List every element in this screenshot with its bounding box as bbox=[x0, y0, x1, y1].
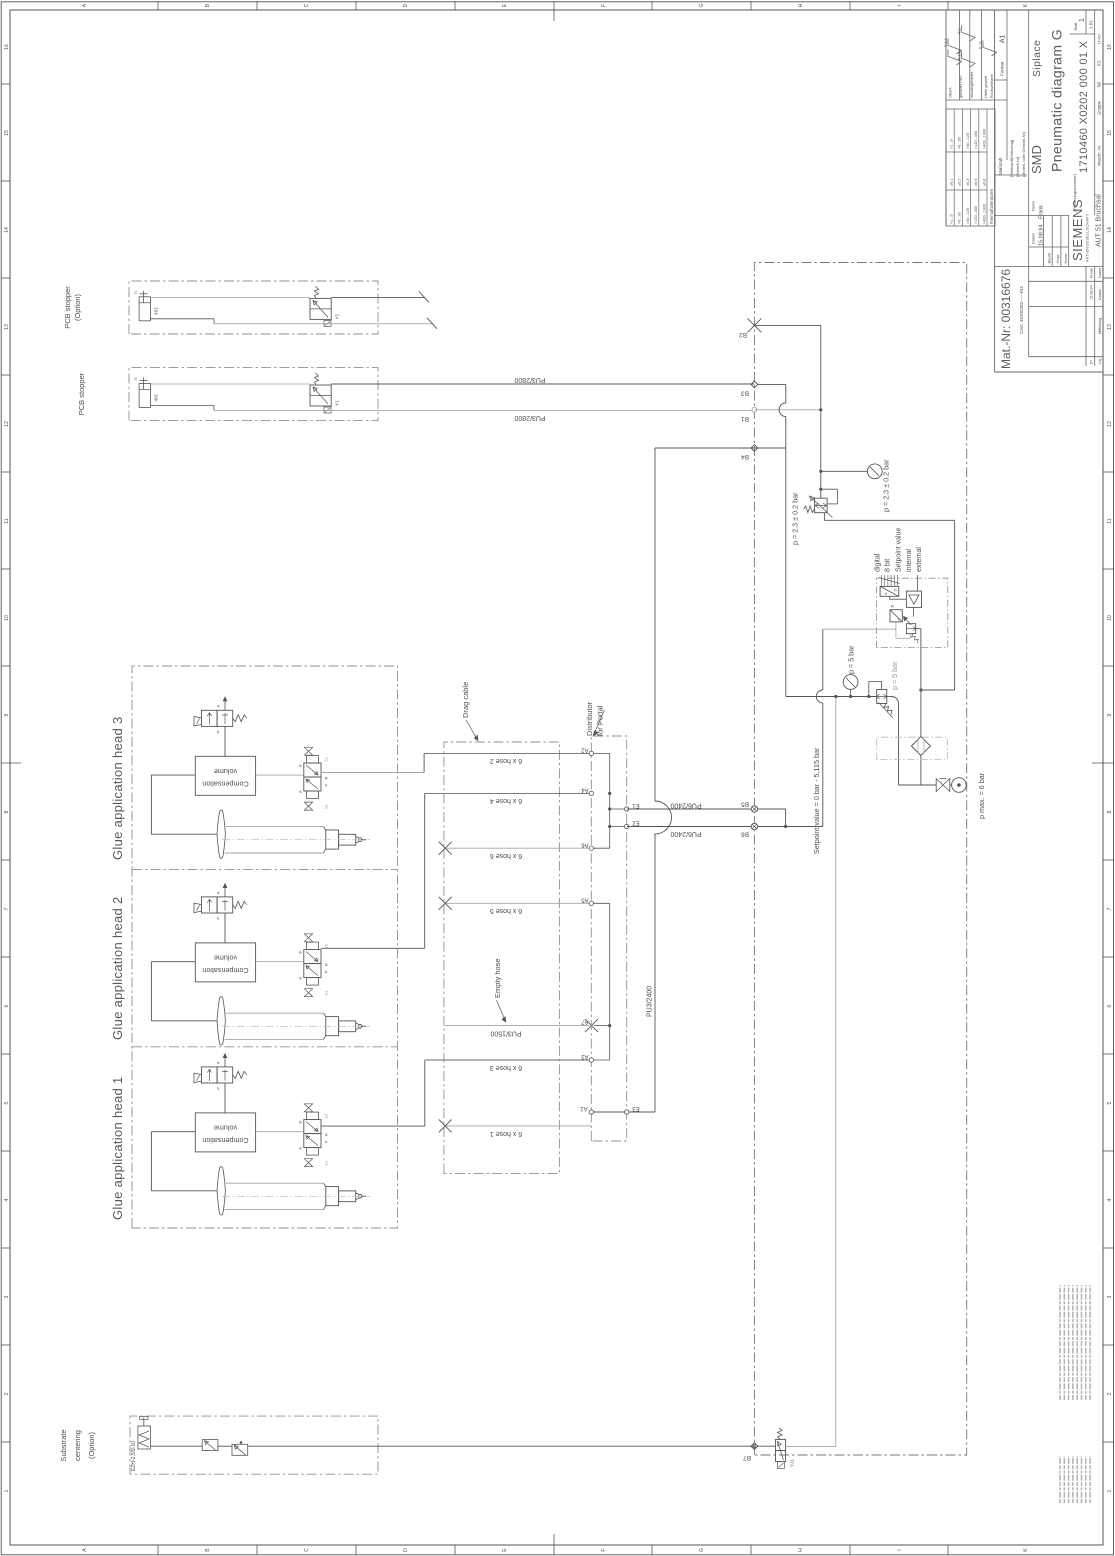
svg-text:B2: B2 bbox=[739, 331, 747, 338]
svg-text:G: G bbox=[699, 3, 705, 7]
glue head 3: syringe centerline bbox=[222, 839, 370, 841]
glue head 1: syringe barrel bbox=[225, 1209, 324, 1211]
glue head 1: 5/2 valve right pilot and muffler bbox=[307, 1112, 319, 1120]
PCB stopper 2: wire cylinder to valve bbox=[150, 383, 310, 385]
svg-text:P: P bbox=[216, 1087, 221, 1090]
filter line bbox=[920, 755, 922, 785]
svg-text:PU6/2400: PU6/2400 bbox=[670, 802, 701, 809]
distributor E2 stub bbox=[610, 826, 627, 828]
svg-text:D: D bbox=[403, 3, 409, 7]
svg-text:Empty hose: Empty hose bbox=[493, 958, 502, 998]
glue head 1: 5/2 valve left pilot and muffler bbox=[307, 1148, 319, 1156]
glue head 3: 3/2 valve body bbox=[202, 710, 218, 726]
svg-text:Setpoint value = 0 bar - 5,115: Setpoint value = 0 bar - 5,115 bar bbox=[812, 747, 821, 854]
svg-text:S1: S1 bbox=[324, 803, 329, 809]
svg-text:(Option): (Option) bbox=[73, 293, 82, 321]
svg-text:gehärtet HRc: gehärtet HRc bbox=[959, 76, 963, 98]
svg-text:S2: S2 bbox=[324, 756, 329, 762]
glue head 2: syringe plunger flange bbox=[217, 997, 225, 1045]
svg-text:S2: S2 bbox=[324, 943, 329, 949]
glue head 2: syringe tip and needle bbox=[356, 1023, 361, 1030]
title block outline bbox=[995, 371, 1103, 373]
svg-text:A: A bbox=[883, 592, 888, 595]
svg-text:Bl: Bl bbox=[134, 377, 138, 380]
PCB stopper 1: wire cylinder to valve bbox=[150, 296, 310, 298]
glue head 2: 3/2 valve body bbox=[202, 897, 218, 913]
title block vertical dividers bbox=[995, 265, 1103, 267]
svg-text:±0,5: ±0,5 bbox=[974, 179, 978, 186]
svg-text:R: R bbox=[324, 1133, 329, 1136]
svg-text:Drag cable: Drag cable bbox=[461, 682, 470, 718]
glue head 2: 5/2 valve left pilot and muffler bbox=[307, 978, 319, 986]
svg-text:PU3/2400: PU3/2400 bbox=[647, 986, 654, 1017]
svg-text:A1: A1 bbox=[580, 1105, 588, 1111]
hose PU6/2400 E2 to B6 bbox=[627, 826, 755, 828]
glue head 1: 3/2 valve spring bbox=[233, 1071, 247, 1078]
svg-text:>6...30: >6...30 bbox=[958, 212, 962, 224]
svg-text:13: 13 bbox=[4, 324, 10, 330]
PCB stopper 1: wire valve out with break bbox=[331, 296, 425, 298]
pneumatic supply unit box bbox=[754, 263, 966, 1456]
hose 3 line bbox=[425, 1059, 592, 1061]
svg-text:Name: Name bbox=[1098, 268, 1102, 278]
node A4 bbox=[589, 791, 593, 795]
distributor internal bus A5-A7-A3 bbox=[609, 903, 611, 1060]
glue head 3: 3/2 valve solenoid bbox=[194, 717, 202, 727]
svg-text:6 x hose 4: 6 x hose 4 bbox=[490, 797, 522, 804]
node A5 bbox=[589, 901, 593, 905]
wire B1 gray down bbox=[754, 409, 820, 411]
glue head 1: wire compensation volume to 5/2 valve bbox=[256, 1131, 304, 1133]
glue head 2: 3/2 valve solenoid bbox=[194, 903, 202, 913]
glue head 1: syringe luer bbox=[339, 1191, 356, 1202]
svg-text:[Modell- oder Gesenk-Nr]: [Modell- oder Gesenk-Nr] bbox=[1021, 132, 1026, 177]
svg-text:Distributor: Distributor bbox=[585, 701, 594, 736]
svg-text:>30...120: >30...120 bbox=[966, 208, 970, 224]
svg-text:10: 10 bbox=[4, 615, 10, 621]
distributor A1-E3 through line bbox=[591, 1111, 655, 1113]
svg-text:Teil: Teil bbox=[1097, 82, 1102, 88]
svg-text:K: K bbox=[1023, 3, 1029, 7]
svg-text:D: D bbox=[403, 1548, 409, 1552]
svg-text:12: 12 bbox=[4, 421, 10, 427]
wire B5 loop to B6 line bbox=[758, 808, 786, 810]
svg-text:8: 8 bbox=[4, 810, 10, 813]
svg-text:volume: volume bbox=[214, 1124, 237, 1133]
svg-text:E: E bbox=[502, 1548, 508, 1552]
svg-text:H: H bbox=[798, 1548, 804, 1552]
substrate centering: flow valve 1 bbox=[202, 1440, 218, 1451]
svg-text:F: F bbox=[601, 1548, 607, 1551]
svg-text:AUT 51 Bruchsal: AUT 51 Bruchsal bbox=[1096, 194, 1103, 247]
svg-text:R: R bbox=[324, 963, 329, 966]
glue head 3: wire valve to compensation volume bbox=[224, 726, 226, 756]
svg-text:SIEMENS: SIEMENS bbox=[1070, 199, 1085, 261]
glue application heads enclosure box bbox=[132, 666, 398, 1228]
svg-text:p = 5 bar: p = 5 bar bbox=[847, 645, 856, 674]
svg-text:1: 1 bbox=[1107, 1489, 1113, 1492]
proportional valve cluster box bbox=[877, 578, 948, 647]
svg-text:YJ1: YJ1 bbox=[790, 1459, 795, 1467]
PCB stopper 1: wire cylinder stepped bbox=[150, 318, 214, 320]
glue head 3: compensation volume box bbox=[195, 756, 255, 795]
setpoint sense line hop over main line bbox=[816, 690, 823, 703]
svg-text:Datum: Datum bbox=[1032, 233, 1036, 244]
svg-text:>1...6: >1...6 bbox=[950, 139, 954, 149]
svg-text:6: 6 bbox=[1107, 1004, 1113, 1007]
node A1 bbox=[589, 1110, 593, 1114]
svg-text:14: 14 bbox=[4, 227, 10, 233]
svg-text:CAD: 46202202------011: CAD: 46202202------011 bbox=[1019, 285, 1024, 334]
svg-text:11: 11 bbox=[1107, 518, 1113, 523]
svg-text:>400...1000: >400...1000 bbox=[982, 129, 986, 149]
svg-text:(Option): (Option) bbox=[87, 1431, 96, 1459]
svg-text:P: P bbox=[216, 917, 221, 920]
PCB stopper 1: wire cylinder out with break bbox=[214, 323, 432, 325]
svg-text:12: 12 bbox=[1107, 421, 1113, 427]
svg-text:A: A bbox=[82, 1548, 88, 1552]
svg-text:Maßstab: Maßstab bbox=[998, 157, 1003, 175]
wire A/D to amplifier bbox=[889, 596, 891, 599]
svg-text:Datum: Datum bbox=[1098, 289, 1102, 300]
svg-text:A: A bbox=[298, 1147, 303, 1150]
legal notice german bbox=[1059, 1456, 1061, 1503]
svg-text:E: E bbox=[502, 3, 508, 7]
PCB stopper 2: cylinder 401 bbox=[139, 383, 150, 407]
svg-text:6 x hose 1: 6 x hose 1 bbox=[490, 1130, 522, 1137]
filter bbox=[911, 737, 930, 756]
svg-text:15.08.94: 15.08.94 bbox=[1090, 285, 1094, 300]
svg-text:R,100: R,100 bbox=[958, 50, 962, 60]
svg-text:Compensation: Compensation bbox=[202, 966, 248, 975]
glue head 1: syringe collar bbox=[326, 1187, 339, 1206]
svg-text:p max. = 6 bar: p max. = 6 bar bbox=[977, 772, 986, 819]
shut-off valve bbox=[899, 784, 937, 786]
drag cable leader line bbox=[466, 720, 477, 738]
svg-text:7: 7 bbox=[4, 907, 10, 910]
proportional valve spring bbox=[912, 634, 919, 643]
regulator p2.3 output loop bbox=[823, 513, 825, 521]
svg-text:p = 2.3 ± 0.2 bar: p = 2.3 ± 0.2 bar bbox=[882, 459, 891, 512]
svg-text:P: P bbox=[324, 970, 329, 973]
svg-text:Glue application head 3: Glue application head 3 bbox=[110, 716, 125, 860]
PCB stopper 2: hose PU3/2800 valve to B3 bbox=[331, 383, 754, 385]
svg-text:S1: S1 bbox=[324, 1160, 329, 1166]
PCB stopper 2: valve Y1 solenoid bbox=[324, 407, 331, 413]
svg-text:[Rohteil-Nr]: [Rohteil-Nr] bbox=[1015, 157, 1020, 177]
hose 5 line capped bbox=[445, 902, 591, 904]
svg-text:R: R bbox=[324, 777, 329, 780]
svg-text:B4: B4 bbox=[741, 453, 749, 460]
PCB stopper 1: valve Y1 solenoid bbox=[324, 320, 331, 326]
svg-text:6 x hose 3: 6 x hose 3 bbox=[490, 1064, 522, 1071]
glue head 2: syringe collar bbox=[326, 1017, 339, 1036]
P/x converter box bbox=[890, 610, 902, 622]
svg-text:E2: E2 bbox=[632, 820, 640, 826]
proportional valve solenoid arrow bbox=[904, 617, 912, 626]
svg-text:Glue application head 2: Glue application head 2 bbox=[110, 896, 125, 1040]
glue head 2: syringe centerline bbox=[222, 1025, 370, 1027]
glue head 1: syringe tip and needle bbox=[356, 1193, 361, 1200]
svg-text:U-Art: U-Art bbox=[1097, 33, 1102, 44]
substrate centering: cylinder EZH-2,5/9-10 bbox=[138, 1426, 151, 1449]
svg-text:PU3/2800: PU3/2800 bbox=[514, 376, 545, 383]
svg-text:2: 2 bbox=[4, 1392, 10, 1395]
svg-text:Pneumatic diagram G: Pneumatic diagram G bbox=[1049, 29, 1065, 172]
svg-text:4: 4 bbox=[4, 1198, 10, 1201]
svg-text:Df: Df bbox=[1090, 360, 1094, 364]
svg-text:A1: A1 bbox=[1000, 34, 1007, 43]
supply line y786 with hop over B1 wire bbox=[785, 417, 787, 697]
node B6 bbox=[751, 823, 757, 829]
svg-text:Compensation: Compensation bbox=[202, 780, 248, 789]
pressure regulator p=2.3bar spring bbox=[803, 506, 814, 513]
PCB stopper box 2 bbox=[129, 368, 378, 421]
PCB stopper 2: valve Y1 spring bbox=[315, 373, 319, 385]
glue head 1: syringe centerline bbox=[222, 1195, 370, 1197]
svg-text:6 x hose 5: 6 x hose 5 bbox=[490, 907, 522, 914]
A/D converter box bbox=[880, 586, 899, 596]
glue head 2: wire compensation volume over to syringe bbox=[151, 961, 195, 963]
gray sense wires prop valve bbox=[823, 628, 896, 630]
svg-text:4: 4 bbox=[1107, 1198, 1113, 1201]
wire head3 valve to hose 2 bbox=[321, 772, 424, 774]
glue head 3: syringe luer bbox=[339, 834, 356, 845]
svg-text:Gepr.: Gepr. bbox=[1055, 254, 1060, 264]
PCB stopper 2: hose PU3/2800 cylinder to B1 bbox=[214, 409, 754, 411]
svg-text:Mascht.-Nr.: Mascht.-Nr. bbox=[1097, 145, 1102, 166]
svg-text:±0,1: ±0,1 bbox=[950, 179, 954, 186]
svg-text:>120...400: >120...400 bbox=[974, 206, 978, 224]
filter unit box gray bbox=[877, 737, 948, 759]
svg-text:B: B bbox=[298, 764, 303, 767]
legal notice english bbox=[1059, 1285, 1061, 1400]
svg-text:8 bit: 8 bit bbox=[885, 559, 892, 572]
svg-text:>400...1000: >400...1000 bbox=[982, 204, 986, 224]
svg-text:B7: B7 bbox=[743, 1454, 751, 1461]
PCB stopper 1: valve Y1 spring bbox=[315, 286, 319, 298]
svg-text:Gruppe: Gruppe bbox=[1097, 100, 1102, 115]
svg-text:volume: volume bbox=[214, 767, 237, 776]
main supply drop line x859.5 bbox=[786, 696, 877, 698]
svg-text:p = 5 bar: p = 5 bar bbox=[890, 661, 899, 690]
svg-text:Freimaßtoleranzen: Freimaßtoleranzen bbox=[989, 188, 994, 224]
frame row ticks left/right bbox=[157, 1545, 159, 1555]
svg-text:einsatzgehärtet: einsatzgehärtet bbox=[970, 71, 974, 98]
distributor box bbox=[591, 736, 626, 1141]
svg-text:ES: ES bbox=[1097, 60, 1102, 66]
wire YJ1 output to supply long gray line bbox=[835, 697, 837, 1447]
svg-text:8: 8 bbox=[1107, 810, 1113, 813]
svg-text:C: C bbox=[304, 3, 310, 7]
svg-text:G: G bbox=[699, 1548, 705, 1552]
glue head 1: syringe plunger flange bbox=[217, 1167, 225, 1215]
svg-text:A6: A6 bbox=[581, 841, 589, 847]
svg-text:>30...120: >30...120 bbox=[966, 133, 970, 149]
svg-text:R,1: R,1 bbox=[958, 28, 962, 34]
svg-text:A: A bbox=[82, 3, 88, 7]
svg-text:P: P bbox=[897, 618, 902, 621]
svg-text:Substrate: Substrate bbox=[59, 1429, 68, 1461]
pressure regulator p=2.3bar body bbox=[815, 498, 828, 513]
wire YJ1 output down bbox=[786, 1445, 836, 1447]
svg-text:6 x hose 6: 6 x hose 6 bbox=[490, 852, 522, 859]
svg-text:15.08.94: 15.08.94 bbox=[1039, 225, 1045, 246]
valve YJ1 body bbox=[776, 1451, 786, 1462]
amplifier box bbox=[906, 591, 921, 607]
svg-text:14: 14 bbox=[1107, 227, 1113, 233]
svg-text:15: 15 bbox=[4, 130, 10, 136]
glue head 2: syringe barrel bbox=[225, 1039, 324, 1041]
glue head 3: syringe collar bbox=[326, 830, 339, 849]
compressed air source bbox=[952, 778, 967, 793]
svg-text:A: A bbox=[216, 705, 221, 708]
glue head 3: 3/2 valve spring bbox=[233, 715, 247, 722]
svg-text:Mat.-Nr: 00316676: Mat.-Nr: 00316676 bbox=[999, 269, 1013, 369]
svg-text:Y1: Y1 bbox=[335, 313, 340, 319]
svg-text:Mitteilung: Mitteilung bbox=[1098, 318, 1102, 334]
svg-text:Siplace: Siplace bbox=[1031, 40, 1043, 77]
hose PU3/2400 line E3 to B4 bbox=[655, 448, 672, 1112]
svg-text:A: A bbox=[298, 977, 303, 980]
digital bus ticks bbox=[881, 575, 883, 586]
svg-text:A5: A5 bbox=[581, 896, 589, 902]
svg-text:Setpoint value: Setpoint value bbox=[896, 528, 903, 572]
PCB stopper box 1 bbox=[129, 281, 378, 334]
svg-text:S2: S2 bbox=[324, 1113, 329, 1119]
substrate centering: main line bbox=[150, 1445, 202, 1447]
svg-text:volume: volume bbox=[214, 954, 237, 963]
wire B3 down to supply line bbox=[758, 383, 786, 385]
PCB stopper 2: wire cylinder stepped bbox=[150, 404, 214, 406]
svg-text:x: x bbox=[890, 605, 896, 608]
svg-text:401: 401 bbox=[154, 307, 159, 315]
svg-text:E1: E1 bbox=[632, 802, 640, 808]
svg-text:Norm: Norm bbox=[1063, 253, 1068, 263]
svg-text:Frank: Frank bbox=[1039, 205, 1045, 219]
svg-text:±0,3: ±0,3 bbox=[966, 179, 970, 186]
glue head 3: 5/2 valve body bbox=[304, 777, 321, 791]
svg-text:1: 1 bbox=[1079, 18, 1086, 22]
svg-text:SMD: SMD bbox=[1029, 145, 1044, 174]
substrate centering: flow valve 2 bbox=[232, 1444, 248, 1455]
svg-text:A: A bbox=[216, 1061, 221, 1064]
svg-text:16: 16 bbox=[1107, 44, 1113, 50]
svg-text:2: 2 bbox=[1107, 1392, 1113, 1395]
svg-text:Glue application head 1: Glue application head 1 bbox=[110, 1076, 125, 1220]
glue head 3: 5/2 valve right pilot and muffler bbox=[307, 756, 319, 764]
node A2 bbox=[589, 751, 593, 755]
glue head 1: wire valve to compensation volume bbox=[224, 1083, 226, 1113]
svg-text:B6: B6 bbox=[741, 831, 749, 838]
svg-text:Format: Format bbox=[1000, 61, 1005, 76]
svg-text:5: 5 bbox=[4, 1101, 10, 1104]
svg-text:AKTIENGESELLSCHAFT: AKTIENGESELLSCHAFT bbox=[1086, 213, 1090, 262]
svg-text:PCB stopper: PCB stopper bbox=[63, 286, 72, 329]
distributor E1 stub bbox=[610, 808, 627, 810]
svg-text:R,6,3: R,6,3 bbox=[944, 38, 948, 47]
distributor leader line bbox=[595, 710, 605, 733]
node E3 bbox=[625, 1110, 629, 1114]
svg-text:PCB stopper: PCB stopper bbox=[77, 372, 86, 415]
svg-text:Lfg: Lfg bbox=[1098, 359, 1102, 364]
wire external setpoint bbox=[916, 575, 918, 591]
glue head 3: syringe tip and needle bbox=[356, 836, 361, 843]
distributor internal bus A2-A4-A6 bbox=[609, 753, 611, 848]
svg-text:F: F bbox=[601, 4, 607, 7]
svg-text:A7: A7 bbox=[581, 1019, 589, 1025]
hose PU6/2400 E1 to B5 bbox=[627, 808, 755, 810]
svg-text:9: 9 bbox=[1107, 713, 1113, 716]
svg-text:9: 9 bbox=[4, 713, 10, 716]
svg-text:B: B bbox=[298, 951, 303, 954]
glue head 3: 3/2 valve exhaust arrow bbox=[224, 697, 226, 710]
wire B7 to YJ1 bbox=[758, 1445, 776, 1447]
hose 2 line bbox=[424, 752, 591, 754]
svg-text:C: C bbox=[304, 1548, 310, 1552]
svg-text:Bl: Bl bbox=[134, 291, 138, 294]
svg-text:P: P bbox=[324, 784, 329, 787]
svg-text:Compensation: Compensation bbox=[202, 1136, 248, 1145]
svg-text:B3: B3 bbox=[741, 390, 749, 397]
svg-text:Frank: Frank bbox=[1090, 268, 1094, 278]
drag cable box bbox=[444, 742, 560, 1174]
svg-text:1 Bl.: 1 Bl. bbox=[1089, 20, 1094, 29]
glue head 2: 3/2 valve spring bbox=[233, 901, 247, 908]
svg-text:external: external bbox=[916, 547, 923, 572]
glue head 2: 3/2 valve exhaust arrow bbox=[224, 884, 226, 897]
svg-text:B: B bbox=[298, 1121, 303, 1124]
svg-text:Rockwellhärte: Rockwellhärte bbox=[990, 74, 994, 98]
hose 4 line bbox=[425, 792, 592, 794]
svg-text:PU6/2400: PU6/2400 bbox=[670, 830, 701, 837]
node A6 bbox=[589, 846, 593, 850]
svg-text:[Werkstoff(Halbzeug]: [Werkstoff(Halbzeug] bbox=[1009, 140, 1014, 177]
svg-text:±0,2: ±0,2 bbox=[958, 179, 962, 186]
svg-text:>1...6: >1...6 bbox=[950, 214, 954, 224]
svg-text:I: I bbox=[897, 5, 903, 6]
svg-text:A2: A2 bbox=[581, 747, 589, 753]
glue head 2: wire valve to compensation volume bbox=[224, 913, 226, 943]
glue head 3: syringe plunger flange bbox=[217, 810, 225, 858]
svg-text:PU3/2800: PU3/2800 bbox=[514, 414, 545, 421]
svg-text:B5: B5 bbox=[741, 801, 749, 808]
regulator p5 output to source line bbox=[887, 696, 891, 698]
pressure regulator p=5bar spring bbox=[884, 704, 892, 715]
svg-text:11: 11 bbox=[4, 518, 10, 523]
glue head 2: 5/2 valve right pilot and muffler bbox=[307, 942, 319, 950]
svg-text:>6...30: >6...30 bbox=[958, 137, 962, 149]
svg-text:D: D bbox=[893, 589, 898, 592]
glue head 1: 3/2 valve body bbox=[202, 1067, 218, 1083]
node B4 bbox=[751, 445, 758, 452]
node E2 bbox=[625, 824, 629, 828]
glue head 1: 3/2 valve solenoid bbox=[194, 1073, 202, 1083]
wire B6 down to setpoint line bbox=[758, 826, 823, 828]
svg-text:PU3/1500: PU3/1500 bbox=[490, 1030, 521, 1037]
svg-text:EZH-2,5/9-10: EZH-2,5/9-10 bbox=[131, 1441, 137, 1471]
svg-text:B1: B1 bbox=[741, 415, 749, 422]
glue head 2: 5/2 valve body bbox=[304, 964, 321, 978]
svg-text:>120...400: >120...400 bbox=[974, 131, 978, 149]
svg-text:16: 16 bbox=[4, 44, 10, 50]
svg-text:6 x hose 2: 6 x hose 2 bbox=[490, 757, 522, 764]
general tolerance table bbox=[946, 109, 995, 226]
node A3 bbox=[589, 1058, 593, 1062]
glue head 2: syringe luer bbox=[339, 1021, 356, 1032]
svg-text:R,25: R,25 bbox=[979, 41, 983, 49]
svg-text:±0,8: ±0,8 bbox=[982, 179, 986, 186]
